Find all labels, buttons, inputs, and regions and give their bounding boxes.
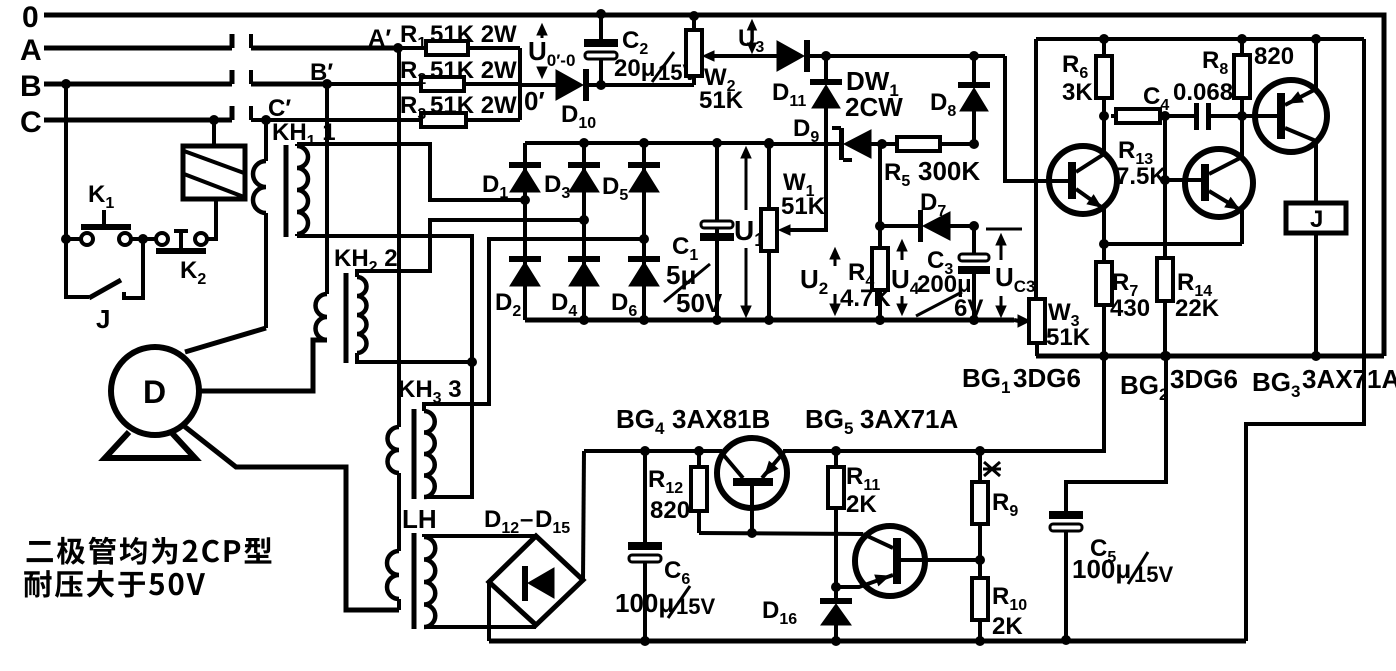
transformer LH label [402, 504, 437, 534]
label K2 [180, 257, 206, 288]
label BG5 [805, 404, 958, 438]
label D10 [561, 101, 596, 132]
wire bridge plus up to BG4 rail [583, 451, 584, 580]
note text line1 (all diodes are 2CP type) [27, 537, 272, 565]
diode D3 [568, 138, 600, 325]
voltage U4 annotation [897, 240, 907, 315]
svg-text:51K: 51K [1046, 324, 1091, 351]
bottom rail BG4/BG5 area [489, 639, 1246, 644]
svg-text:3AX71A: 3AX71A [860, 404, 958, 434]
svg-text:A: A [20, 34, 42, 67]
bridge tap2 dot [579, 215, 589, 225]
bridge rectifier D12-D15 diamond [489, 536, 583, 625]
svg-text:A′: A′ [368, 25, 391, 52]
wire motor to KH1 primary [185, 328, 266, 352]
svg-text:2CW: 2CW [845, 92, 903, 122]
svg-text:C: C [20, 106, 42, 139]
label R9 [992, 489, 1018, 520]
label D1 [482, 171, 508, 202]
KH3 core [412, 409, 417, 499]
zener diode D9 [832, 126, 871, 162]
diode D11 [777, 40, 810, 72]
box bottom rail [1036, 354, 1384, 359]
svg-text:51K 2W: 51K 2W [430, 92, 517, 119]
wire D9 to R5 [871, 139, 897, 149]
note text line2 (withstand voltage greater than 50V) [24, 570, 205, 598]
label R6 [1062, 51, 1093, 106]
label C1 value [664, 260, 723, 318]
svg-text:2K: 2K [992, 613, 1023, 640]
svg-text:200μ: 200μ [917, 271, 972, 298]
wire bottom rail arrow into W3 wiper [875, 315, 1030, 327]
svg-text:50V: 50V [676, 288, 723, 318]
svg-text:22K: 22K [1175, 295, 1220, 322]
label BG2 [1120, 364, 1238, 404]
KH2 primary coil (phase B) [316, 84, 328, 340]
svg-text:51K: 51K [781, 193, 826, 220]
svg-text:51K 2W: 51K 2W [430, 57, 517, 84]
wire motor to LH primary [184, 426, 399, 610]
label BG4 [616, 404, 770, 438]
zener diode DW1 [810, 56, 842, 230]
wire 0' bus [518, 48, 522, 120]
wire KH1 secondary bottom to star point [297, 236, 472, 362]
transistor BG3 [1242, 34, 1327, 203]
diode D7 [880, 210, 979, 242]
wire KH3 secondary top to bridge tap 3 [424, 239, 644, 411]
capacitor C1 [700, 138, 734, 325]
relay contact J (holding contact) [66, 239, 143, 298]
svg-text:J: J [1310, 206, 1323, 233]
label U3 [738, 25, 764, 56]
box border [1036, 39, 1364, 641]
wire bridge minus to bottom rail [487, 582, 491, 641]
svg-text:100μ: 100μ [615, 588, 674, 618]
voltage U3 annotation [748, 20, 757, 53]
capacitor C6 [628, 451, 662, 646]
label J (contact) [96, 304, 110, 334]
label U4 [891, 264, 920, 298]
svg-text:3DG6: 3DG6 [1013, 363, 1081, 393]
label U0'-0 [528, 36, 575, 70]
svg-text:0: 0 [22, 1, 39, 34]
resistor R9 [972, 451, 988, 560]
label C6 [664, 557, 690, 588]
wire BG2 base [1160, 175, 1201, 185]
LH primary coil [387, 551, 399, 610]
svg-text:0′: 0′ [524, 86, 545, 116]
label BG1 [962, 363, 1081, 397]
capacitor C3 [958, 226, 990, 325]
resistor R14 [1157, 116, 1173, 361]
label C2 value [614, 52, 697, 85]
node A' dot and label [368, 25, 403, 53]
svg-text:3K: 3K [1062, 79, 1093, 106]
svg-text:B: B [20, 70, 42, 103]
label D6 [611, 289, 637, 320]
resistor R11 [828, 451, 844, 598]
bridge bottom rail [525, 318, 1014, 323]
resistor R10 [972, 560, 988, 646]
capacitor C4 [1194, 103, 1247, 130]
svg-text:100μ: 100μ [1072, 554, 1131, 584]
W2 wiper [703, 51, 777, 61]
wire phase C right segment to C' [251, 118, 266, 122]
resistor R12 [691, 451, 707, 533]
bridge top rail [525, 141, 769, 145]
svg-text:3AX71A: 3AX71A [1302, 364, 1396, 394]
KH1 secondary coil [297, 144, 308, 236]
label D8 [930, 89, 956, 120]
label R1 [400, 21, 517, 52]
svg-text:C′: C′ [268, 95, 291, 122]
voltage U2 annotation [830, 248, 840, 315]
KH2 core [344, 273, 349, 363]
svg-text:2K: 2K [846, 491, 877, 518]
voltage UC3 annotation [986, 229, 1022, 317]
resistor R4 [872, 226, 888, 325]
resistor R8 [1234, 34, 1250, 116]
svg-text:6V: 6V [954, 295, 983, 322]
switch contact gap phase C [249, 106, 253, 120]
label D3 [544, 171, 570, 202]
bridge tap3 dot [639, 234, 649, 244]
label D7 [920, 189, 946, 220]
wire KH1 secondary top to bridge tap 1 [297, 144, 525, 200]
wire from line B down to button row [61, 79, 71, 239]
diode D16 [820, 598, 852, 646]
wire D11 to corner [810, 51, 1005, 61]
diode D10 [556, 69, 589, 101]
KH3 secondary coil [424, 411, 435, 497]
svg-text:5μ: 5μ [666, 260, 696, 290]
label R7 [1110, 269, 1150, 322]
label D16 [762, 597, 797, 628]
label K1 [88, 181, 114, 212]
label BG3 [1252, 364, 1396, 401]
label D11 [772, 79, 806, 110]
svg-text:J: J [96, 304, 110, 334]
wire to BG1 base [1005, 56, 1069, 181]
resistor R2 [327, 77, 520, 91]
label R10 [992, 583, 1027, 640]
wire phase A right segment to A' [251, 46, 398, 51]
label R2 [400, 57, 517, 88]
diode D2 [509, 256, 541, 286]
svg-text:51K 2W: 51K 2W [430, 21, 517, 48]
transformer KH3 label [398, 376, 462, 407]
diode D4 [568, 256, 600, 286]
node A label [20, 34, 42, 67]
wire BG4 rail right [783, 356, 1104, 456]
wire line C to contactor coil [209, 115, 219, 146]
label C5 [1090, 535, 1116, 566]
node C label [20, 106, 42, 139]
transistor BG5 [831, 526, 985, 596]
switch contact gap phase B [249, 70, 253, 84]
label R4 [840, 259, 891, 312]
svg-text:B′: B′ [310, 59, 333, 86]
label DW1 [845, 66, 903, 122]
label R3 [400, 92, 517, 123]
label R5 [884, 156, 980, 190]
svg-text:3DG6: 3DG6 [1170, 364, 1238, 394]
contactor coil [183, 146, 245, 199]
wire LH secondary bottom to bridge D12-D15 [424, 625, 536, 629]
wire BG4 rail left [584, 446, 722, 456]
label R11 [846, 463, 880, 518]
KH2 secondary coil [357, 276, 367, 353]
node B label [20, 70, 42, 103]
wire KH2 secondary top to bridge tap 2 [357, 220, 584, 276]
wire BG1-BG2 emitters [1104, 242, 1242, 246]
wire R12/BG4 base/BG5 collector [699, 533, 863, 534]
relay coil J [1286, 203, 1346, 361]
label C5 value [1072, 552, 1173, 587]
wire C5 branch [1066, 351, 1171, 511]
KH1 primary coil (phase C) [253, 120, 266, 328]
label W3 [1046, 299, 1091, 351]
voltage U0'-0 annotation [537, 24, 547, 78]
transistor BG1 [1049, 116, 1117, 244]
wire phase B left segment [44, 70, 232, 84]
wire line 0 (neutral bus top and right side) [44, 15, 1384, 356]
label D9 [793, 115, 819, 146]
diode D8 [958, 56, 990, 144]
switch contact gap phase A [249, 34, 253, 48]
label W1 [781, 169, 826, 220]
resistor R5 [897, 137, 979, 151]
transformer KH1 label [272, 119, 336, 150]
label D5 [602, 173, 628, 204]
label R9 select mark [983, 462, 1001, 476]
voltage U1 annotation [741, 147, 751, 317]
wire phase B right segment to B' [251, 82, 327, 87]
svg-text:15V: 15V [676, 594, 715, 619]
pushbutton K2 (NO start button) [156, 231, 207, 254]
resistor R7 [1096, 239, 1112, 361]
svg-text:0.068: 0.068 [1173, 79, 1233, 106]
resistor R6 [1096, 34, 1112, 121]
label C2 [622, 27, 648, 58]
label C3 value [916, 271, 983, 322]
node B' dot and label [310, 59, 333, 89]
KH1 core [284, 145, 289, 237]
node C' dot and label [261, 95, 291, 125]
wire W1 top to D9 [764, 139, 839, 149]
junction dot left of K1 [61, 234, 82, 244]
svg-text:15V: 15V [1134, 562, 1173, 587]
label UC3 [995, 262, 1036, 296]
potentiometer W2 [686, 11, 702, 85]
capacitor C5 [1049, 511, 1083, 645]
wire K1 to junction [131, 234, 157, 244]
label C4 [1143, 79, 1233, 114]
wire phase A left segment [44, 34, 232, 48]
svg-text:51K: 51K [699, 87, 744, 114]
pushbutton K1 (NC stop button) [81, 210, 131, 245]
label U2 [800, 264, 828, 298]
resistor R13 [1111, 109, 1196, 123]
potentiometer W1 [761, 138, 777, 325]
label node 0' [524, 86, 545, 116]
svg-text:LH: LH [402, 504, 437, 534]
svg-text:D: D [143, 374, 166, 410]
svg-text:4.7K: 4.7K [840, 285, 891, 312]
svg-text:7.5K: 7.5K [1116, 163, 1167, 190]
capacitor C2 [584, 9, 618, 85]
label C6 value [615, 586, 715, 619]
wire K2 to contactor coil [207, 199, 216, 239]
wire KH2 secondary bottom to star point [357, 353, 477, 367]
W1 wiper [779, 107, 826, 235]
LH core [412, 533, 417, 629]
transistor BG4 [717, 438, 787, 538]
diode D6 [628, 256, 660, 286]
label D12-D15 [484, 506, 570, 537]
bridge tap1 dot [520, 195, 530, 205]
label C1 [672, 233, 698, 264]
wire LH secondary top to bridge D12-D15 [424, 536, 536, 537]
motor D [105, 347, 199, 458]
label C3 [927, 247, 953, 278]
transformer KH2 label [334, 245, 398, 276]
diode D1 [509, 143, 541, 320]
svg-text:820: 820 [650, 497, 690, 524]
resistor R1 [398, 41, 520, 55]
wire motor to KH2 primary [199, 340, 327, 391]
label D4 [551, 289, 577, 320]
svg-text:300K: 300K [918, 156, 980, 186]
wire 0' to D10 [520, 83, 556, 87]
potentiometer W3 [1029, 299, 1045, 343]
label D2 [495, 289, 521, 320]
label R14 [1175, 269, 1220, 322]
wire phase C left segment [44, 106, 232, 120]
svg-text:820: 820 [1254, 43, 1294, 70]
node 0 label [22, 1, 39, 34]
diode D5 [628, 138, 660, 325]
LH secondary coil [424, 537, 435, 627]
label R8 [1202, 43, 1294, 78]
resistor R3 [266, 113, 520, 127]
wire D10 to C2 [589, 80, 694, 90]
svg-text:430: 430 [1110, 295, 1150, 322]
svg-text:3AX81B: 3AX81B [672, 404, 770, 434]
KH3 primary coil (phase A) [388, 48, 400, 551]
label R13 [1116, 137, 1167, 190]
wire KH3 secondary bottom to star point [424, 236, 472, 497]
label R12 [648, 466, 690, 524]
label U1 [734, 215, 764, 250]
svg-text:–: – [520, 506, 533, 533]
wire R5 junction down [875, 144, 885, 231]
transistor BG2 [1185, 116, 1253, 244]
label W2 [699, 64, 744, 114]
svg-text:20μ: 20μ [614, 55, 655, 82]
